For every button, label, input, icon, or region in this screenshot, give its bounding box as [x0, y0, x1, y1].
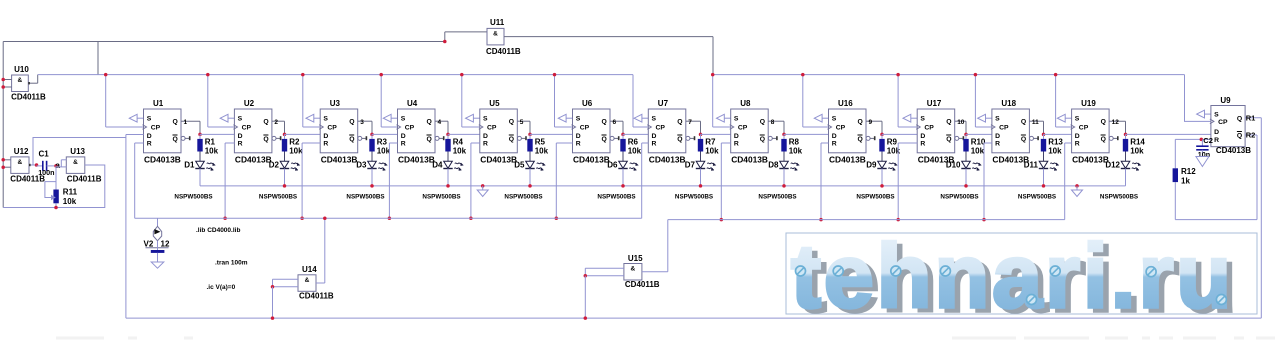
wire node 12 to D of next stage: [1126, 133, 1211, 135]
LED D5: [514, 161, 545, 186]
svg-text:D1: D1: [184, 161, 195, 170]
svg-text:CD4013B: CD4013B: [144, 154, 181, 164]
svg-text:S: S: [652, 115, 657, 122]
flip-flop U5: [479, 99, 527, 164]
directive lib: [196, 227, 240, 234]
gate U11: [486, 18, 521, 56]
svg-text:&: &: [493, 30, 498, 37]
wire Q output net 12: [1109, 119, 1125, 135]
wire Q output net 10: [955, 119, 966, 135]
LED D8: [768, 161, 799, 186]
junction rail A U17: [896, 218, 900, 222]
flip-flop U6: [572, 99, 620, 164]
wire node 3 to D of next stage: [372, 133, 398, 135]
junction clock rail U19: [1054, 73, 1058, 77]
wire S input arrow U4: [383, 114, 397, 122]
svg-text:9: 9: [869, 119, 873, 126]
svg-text:S: S: [1075, 115, 1080, 122]
junction U12 input b: [1, 165, 4, 169]
junction Q node 1: [198, 133, 202, 137]
svg-text:Q: Q: [1021, 136, 1026, 143]
wire R pin U8 to rail: [721, 143, 730, 220]
svg-text:CD4013B: CD4013B: [1216, 146, 1251, 155]
svg-text:100n: 100n: [38, 168, 54, 177]
svg-text:NSPW500BS: NSPW500BS: [422, 194, 460, 201]
capacitor C2: [1196, 139, 1210, 158]
resistor R3: [369, 134, 390, 161]
node C2 junction: [1200, 136, 1213, 145]
voltage source V2: [144, 218, 170, 262]
svg-text:U12: U12: [14, 147, 29, 156]
gate U15: [585, 254, 668, 289]
svg-text:8: 8: [771, 119, 775, 126]
svg-text:R1: R1: [1246, 114, 1256, 123]
wire Q output net 11: [1029, 119, 1043, 135]
wire S input arrow U8: [717, 114, 731, 122]
label NSPW500BS D1: [174, 194, 212, 201]
LED D12: [1105, 161, 1140, 186]
wire Q output net R1: [1245, 114, 1261, 319]
svg-text:CP: CP: [580, 125, 590, 132]
svg-text:D: D: [576, 133, 581, 140]
flip-flop U2: [233, 99, 281, 164]
svg-text:NSPW500BS: NSPW500BS: [346, 194, 384, 201]
label NSPW500BS D6: [597, 194, 635, 201]
wire rail B left riser to U1 D: [126, 135, 144, 319]
junction U14 output rail A: [323, 217, 327, 221]
svg-text:Q: Q: [602, 119, 607, 126]
resistor R4: [445, 134, 466, 161]
label NSPW500BS D9: [856, 194, 894, 201]
svg-text:CP: CP: [1079, 125, 1089, 132]
junction U11 input: [443, 40, 447, 44]
junction rail A U2: [223, 217, 227, 221]
svg-text:S: S: [1214, 111, 1219, 118]
svg-text:U3: U3: [330, 99, 341, 108]
svg-text:Q: Q: [173, 119, 178, 126]
wire Q output net 3: [358, 119, 372, 135]
wire CP feed U6: [555, 75, 573, 127]
svg-text:10k: 10k: [628, 146, 642, 155]
wire oscillator feedback link: [33, 138, 126, 166]
LED D1: [184, 161, 215, 186]
svg-text:NSPW500BS: NSPW500BS: [174, 194, 212, 201]
resistor R2: [282, 134, 303, 161]
svg-text:D: D: [238, 133, 243, 140]
svg-text:CD4013B: CD4013B: [573, 154, 610, 164]
junction Q node 3: [370, 133, 374, 137]
wire R pin U18 to rail: [984, 143, 992, 220]
svg-text:7: 7: [688, 119, 692, 126]
svg-text:U17: U17: [927, 99, 942, 108]
junction Q node 5: [528, 133, 532, 137]
svg-text:U6: U6: [582, 99, 593, 108]
svg-text:12: 12: [1112, 119, 1120, 126]
junction Q node 9: [880, 133, 884, 137]
svg-text:R6: R6: [628, 138, 639, 147]
wire node 7 to D of next stage: [701, 133, 731, 135]
svg-text:R13: R13: [1048, 138, 1063, 147]
svg-text:S: S: [576, 115, 581, 122]
svg-text:10k: 10k: [705, 146, 719, 155]
wire CP feed U16: [803, 75, 829, 127]
wire R pin U16 to rail: [821, 143, 829, 220]
wire CP feed U18: [975, 75, 992, 127]
svg-text:CD4011B: CD4011B: [625, 280, 660, 289]
svg-text:U18: U18: [1001, 99, 1016, 108]
svg-text:U10: U10: [14, 65, 29, 74]
svg-text:CD4011B: CD4011B: [486, 47, 521, 56]
svg-text:Q: Q: [946, 119, 951, 126]
flip-flop U17: [916, 99, 964, 164]
junction rail A U5: [469, 217, 473, 221]
svg-text:CP: CP: [405, 125, 415, 132]
wire node 8 to D of next stage: [784, 133, 829, 135]
svg-text:Q: Q: [427, 136, 432, 143]
junction rail A U18: [982, 218, 986, 222]
junction clock rail U16: [801, 73, 805, 77]
svg-text:R11: R11: [63, 188, 78, 197]
wire clock rail to U9 CP: [1185, 75, 1211, 122]
svg-text:Q: Q: [509, 119, 514, 126]
svg-text:NSPW500BS: NSPW500BS: [758, 194, 796, 201]
wire clock rail riser: [97, 42, 99, 75]
wire R pin U1 to rail: [135, 143, 144, 218]
svg-text:10k: 10k: [205, 146, 219, 155]
directive ic: [207, 284, 236, 291]
svg-text:Q: Q: [677, 136, 682, 143]
svg-text:R: R: [576, 141, 581, 148]
junction Q node 8: [782, 133, 786, 137]
svg-text:Q: Q: [858, 136, 863, 143]
svg-text:Q: Q: [173, 136, 178, 143]
svg-text:1k: 1k: [1181, 177, 1190, 186]
svg-text:D: D: [995, 133, 1000, 140]
LED D4: [432, 161, 463, 186]
svg-text:1: 1: [184, 119, 188, 126]
LED D3: [356, 161, 387, 186]
svg-text:CP: CP: [327, 125, 337, 132]
wire R pin U6 to rail: [556, 143, 572, 218]
wire node 10 to D of next stage: [966, 133, 992, 135]
resistor R10: [963, 134, 986, 161]
svg-text:Q: Q: [1101, 119, 1106, 126]
wire U15 output riser: [667, 220, 669, 272]
svg-text:CD4013B: CD4013B: [321, 154, 358, 164]
wire Q output net 9: [866, 119, 882, 135]
svg-text:Q: Q: [677, 119, 682, 126]
svg-text:NSPW500BS: NSPW500BS: [259, 194, 297, 201]
junction clock rail U1: [104, 73, 108, 77]
svg-text:D: D: [323, 133, 328, 140]
svg-text:R: R: [401, 141, 406, 148]
svg-text:R1: R1: [205, 138, 216, 147]
svg-text:U9: U9: [1220, 96, 1231, 105]
svg-text:CD4013B: CD4013B: [398, 154, 435, 164]
svg-text:D: D: [734, 133, 739, 140]
svg-text:10k: 10k: [1130, 146, 1144, 155]
wire CP feed U5: [462, 75, 480, 127]
svg-text:10k: 10k: [535, 146, 549, 155]
label NSPW500BS D8: [758, 194, 796, 201]
svg-text:Q: Q: [1237, 115, 1242, 122]
wire CP feed U3: [303, 75, 320, 127]
svg-text:NSPW500BS: NSPW500BS: [675, 194, 713, 201]
junction LED rail D4: [446, 184, 450, 188]
gate U13: [56, 147, 102, 184]
svg-text:D: D: [920, 133, 925, 140]
junction clock rail U2: [206, 73, 210, 77]
label NSPW500BS D2: [259, 194, 297, 201]
label NSPW500BS D11: [1018, 194, 1056, 201]
svg-text:R: R: [147, 141, 152, 148]
junction Q node 4: [446, 133, 450, 137]
resistor R11: [45, 166, 78, 208]
label NSPW500BS D7: [675, 194, 713, 201]
svg-text:S: S: [323, 115, 328, 122]
svg-text:S: S: [401, 115, 406, 122]
svg-text:10k: 10k: [63, 197, 77, 206]
wire rail A right piece: [668, 219, 1065, 221]
gate U10: [3, 65, 46, 102]
wire clock rail right segment: [713, 74, 1185, 76]
label NSPW500BS D12: [1100, 194, 1138, 201]
svg-text:Q: Q: [602, 136, 607, 143]
svg-text:R9: R9: [887, 138, 898, 147]
junction Q node 2: [283, 133, 287, 137]
junction rail A U3: [300, 217, 304, 221]
svg-text:S: S: [238, 115, 243, 122]
wire node 2 to D of next stage: [285, 133, 321, 135]
svg-text:10: 10: [957, 119, 965, 126]
ground C2: [1196, 157, 1209, 167]
wire Qbar output net R2: [1175, 131, 1257, 220]
svg-text:NSPW500BS: NSPW500BS: [504, 194, 542, 201]
junction U12 output: [35, 163, 39, 167]
svg-text:CD4013B: CD4013B: [649, 154, 686, 164]
svg-text:6: 6: [613, 119, 617, 126]
svg-text:10k: 10k: [1048, 146, 1062, 155]
ground: [477, 184, 488, 196]
wire S input arrow U3: [306, 114, 320, 122]
svg-text:11: 11: [1032, 119, 1039, 126]
wire Q output net 5: [517, 119, 530, 135]
flip-flop U19: [1071, 99, 1119, 164]
svg-text:CD4013B: CD4013B: [1072, 154, 1109, 164]
junction U10 input a: [1, 78, 4, 82]
resistor R8: [781, 134, 802, 161]
resistor R5: [527, 134, 548, 161]
junction clock rail U8: [711, 73, 715, 77]
svg-text:D8: D8: [768, 161, 779, 170]
svg-text:Q: Q: [1237, 133, 1242, 140]
wire R pin U17 to rail: [898, 143, 917, 220]
junction Q node 11: [1042, 133, 1046, 137]
svg-text:S: S: [832, 115, 837, 122]
svg-text:&: &: [631, 266, 636, 273]
svg-text:CP: CP: [656, 125, 666, 132]
resistor R1: [197, 134, 218, 161]
wire net U10-out top line: [3, 42, 445, 208]
ground V2: [151, 262, 164, 268]
label NSPW500BS D3: [346, 194, 384, 201]
svg-text:U15: U15: [628, 254, 643, 263]
svg-text:D3: D3: [356, 161, 367, 170]
svg-text:D4: D4: [432, 161, 443, 170]
svg-text:10k: 10k: [289, 146, 303, 155]
svg-text:S: S: [995, 115, 1000, 122]
gate U12: [3, 147, 45, 184]
svg-text:R8: R8: [789, 138, 800, 147]
wire U11 output to clock rail: [504, 37, 713, 75]
svg-text:R: R: [238, 141, 243, 148]
flip-flop U4: [397, 99, 445, 164]
svg-text:D: D: [483, 133, 488, 140]
LED D6: [607, 161, 638, 186]
svg-text:CD4011B: CD4011B: [11, 93, 46, 102]
svg-text:R: R: [483, 141, 488, 148]
wire Q output net 1: [181, 119, 200, 135]
svg-text:R7: R7: [705, 138, 716, 147]
svg-text:.ic V(a)=0: .ic V(a)=0: [207, 284, 236, 291]
svg-text:CP: CP: [924, 125, 934, 132]
watermark tehnari.ru: [786, 227, 1257, 331]
junction clock rail U6: [553, 73, 557, 77]
svg-text:D: D: [652, 133, 657, 140]
LED D7: [685, 161, 716, 186]
junction clock rail U17: [896, 73, 900, 77]
svg-text:R4: R4: [453, 138, 464, 147]
junction rail A U6: [555, 217, 559, 221]
svg-text:D10: D10: [946, 161, 961, 170]
junction clock rail U3: [301, 73, 305, 77]
svg-text:Q: Q: [349, 136, 354, 143]
junction Q node 10: [964, 133, 968, 137]
bottom artifact marks: [56, 337, 1275, 340]
svg-text:C1: C1: [39, 150, 50, 159]
wire R pin U3 to rail: [302, 143, 320, 218]
junction LED rail D8: [782, 184, 786, 188]
junction LED rail D7: [699, 184, 703, 188]
svg-text:U16: U16: [838, 99, 853, 108]
junction clock rail U4: [379, 73, 383, 77]
wire Q output net 2: [272, 119, 285, 135]
svg-text:D: D: [1214, 129, 1219, 136]
svg-text:10k: 10k: [453, 146, 467, 155]
flip-flop U8: [730, 99, 778, 164]
svg-text:10k: 10k: [789, 146, 803, 155]
svg-text:R: R: [995, 141, 1000, 148]
flip-flop U16: [828, 99, 876, 164]
svg-text:D: D: [1075, 133, 1080, 140]
svg-text:D: D: [401, 133, 406, 140]
junction clock rail U5: [460, 73, 464, 77]
wire R pin U7 to rail: [642, 143, 649, 218]
resistor R7: [698, 134, 719, 161]
wire node 1 to D of next stage: [200, 133, 234, 135]
gate U14: [273, 265, 334, 300]
wire R12 to R pin U9: [1175, 138, 1211, 140]
svg-text:D7: D7: [685, 161, 696, 170]
junction LED rail D5: [528, 184, 532, 188]
svg-text:CD4013B: CD4013B: [731, 154, 768, 164]
svg-text:NSPW500BS: NSPW500BS: [597, 194, 635, 201]
LED D2: [269, 161, 300, 186]
junction rail B U14: [271, 316, 275, 320]
wire CP feed U7: [633, 75, 648, 127]
flip-flop U18: [991, 99, 1039, 164]
svg-text:NSPW500BS: NSPW500BS: [1018, 194, 1056, 201]
svg-text:CP: CP: [242, 125, 252, 132]
wire U10 output riser: [37, 75, 39, 84]
svg-text:R12: R12: [1181, 167, 1196, 176]
svg-text:S: S: [483, 115, 488, 122]
svg-text:12: 12: [161, 240, 170, 249]
wire S input arrow U2: [220, 114, 234, 122]
svg-text:R3: R3: [377, 138, 388, 147]
wire S input arrow U19: [1057, 114, 1071, 122]
svg-text:.lib CD4000.lib: .lib CD4000.lib: [196, 227, 240, 234]
svg-text:R: R: [652, 141, 657, 148]
junction Q node 6: [621, 133, 625, 137]
junction clock rail U18: [974, 73, 978, 77]
svg-text:S: S: [147, 115, 152, 122]
wire R pin U4 to rail: [389, 143, 397, 218]
svg-text:S: S: [734, 115, 739, 122]
wire CP feed U4: [381, 75, 397, 127]
wire node 9 to D of next stage: [882, 133, 917, 135]
label NSPW500BS D5: [504, 194, 542, 201]
wire S input arrow U7: [634, 114, 648, 122]
svg-text:tehnari.ru: tehnari.ru: [791, 227, 1234, 327]
wire S input arrow U17: [903, 114, 917, 122]
svg-text:10k: 10k: [377, 146, 391, 155]
wire CP feed U8: [713, 75, 731, 127]
wire Q output net 6: [610, 119, 623, 135]
svg-text:2: 2: [274, 119, 278, 126]
svg-text:CP: CP: [1218, 119, 1228, 126]
svg-text:U13: U13: [70, 147, 85, 156]
wire Q output net 8: [768, 119, 784, 135]
svg-text:Q: Q: [1101, 136, 1106, 143]
node a: [54, 160, 60, 170]
junction U12 input a: [1, 158, 4, 162]
svg-text:D6: D6: [607, 161, 618, 170]
wire S input arrow U5: [466, 114, 480, 122]
svg-text:CD4013B: CD4013B: [829, 154, 866, 164]
junction LED rail D10: [964, 184, 968, 188]
svg-text:&: &: [305, 277, 310, 284]
wire clock rail left segment: [38, 74, 633, 76]
wire node 11 to D of next stage: [1044, 133, 1072, 135]
svg-text:U8: U8: [740, 99, 751, 108]
resistor R12: [1173, 139, 1197, 219]
svg-text:CP: CP: [836, 125, 846, 132]
junction rail B U15: [584, 316, 588, 320]
flip-flop U7: [647, 99, 695, 164]
label NSPW500BS D4: [422, 194, 460, 201]
svg-text:D: D: [832, 133, 837, 140]
svg-text:Q: Q: [760, 119, 765, 126]
svg-text:CD4011B: CD4011B: [67, 174, 102, 183]
junction rail A U16: [819, 218, 823, 222]
svg-text:U5: U5: [489, 99, 500, 108]
svg-text:Q: Q: [1021, 119, 1026, 126]
svg-text:&: &: [73, 159, 78, 166]
svg-text:Q: Q: [427, 119, 432, 126]
svg-text:R: R: [323, 141, 328, 148]
svg-text:V2: V2: [144, 240, 154, 249]
